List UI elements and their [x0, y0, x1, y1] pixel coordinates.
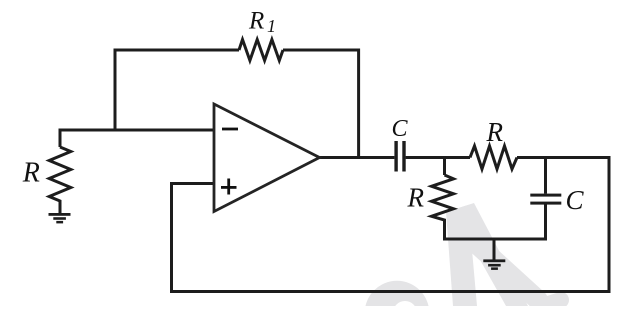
wire: capacitor C (shunt) to tank bottom — [544, 204, 547, 240]
svg-text:R: R — [248, 7, 264, 34]
svg-text:C: C — [566, 185, 585, 215]
svg-text:R: R — [407, 182, 425, 212]
capacitor C (shunt) — [530, 194, 561, 205]
ground (tank) — [483, 259, 505, 270]
wire: feedback top, left segment to R1 — [114, 49, 240, 52]
svg-text:C: C — [392, 116, 409, 142]
wire: tank bottom rail — [443, 238, 547, 241]
wire: feedback drop vertical to output node — [357, 49, 360, 158]
resistor R (right, node B to node C) — [470, 146, 517, 169]
wire: node B down to resistor R (shunt) — [443, 158, 446, 176]
wire: op-amp U1 output to capacitor C (series) — [320, 156, 395, 159]
wire: right edge vertical — [608, 158, 611, 294]
wire: resistor R (right) to node C and right edge — [517, 156, 611, 159]
resistor R1 — [239, 40, 283, 61]
wire: non-inverting input to op-amp U1 — [170, 182, 214, 185]
wire: capacitor C (series) to node B — [406, 156, 470, 159]
resistor R (shunt, node B to tank bottom) — [432, 175, 454, 241]
op-amp U1 non-inverting input marker (+) — [221, 179, 237, 195]
wire: feedback left vertical from node A — [114, 50, 117, 132]
op-amp U1 — [214, 104, 320, 212]
op-amp U1 inverting input marker (−) — [222, 128, 238, 131]
svg-text:1: 1 — [267, 16, 276, 36]
capacitor C (series) — [394, 141, 405, 172]
wire: feedback bottom-left vertical — [170, 184, 173, 292]
wire: node A down to resistor R (left) — [59, 129, 62, 148]
wire: bottom rail — [170, 290, 611, 293]
wire: inverting input, node A to op-amp U1 — [59, 129, 215, 132]
svg-text:R: R — [486, 117, 504, 147]
svg-text:R: R — [22, 158, 40, 189]
ground (left, below resistor R) — [49, 213, 71, 223]
resistor R (left, input to ground) — [49, 147, 71, 214]
wire: R1 to feedback drop corner — [283, 49, 359, 52]
wire: tank ground stem — [493, 239, 496, 260]
wire: node C down to capacitor C (shunt) — [544, 158, 547, 194]
